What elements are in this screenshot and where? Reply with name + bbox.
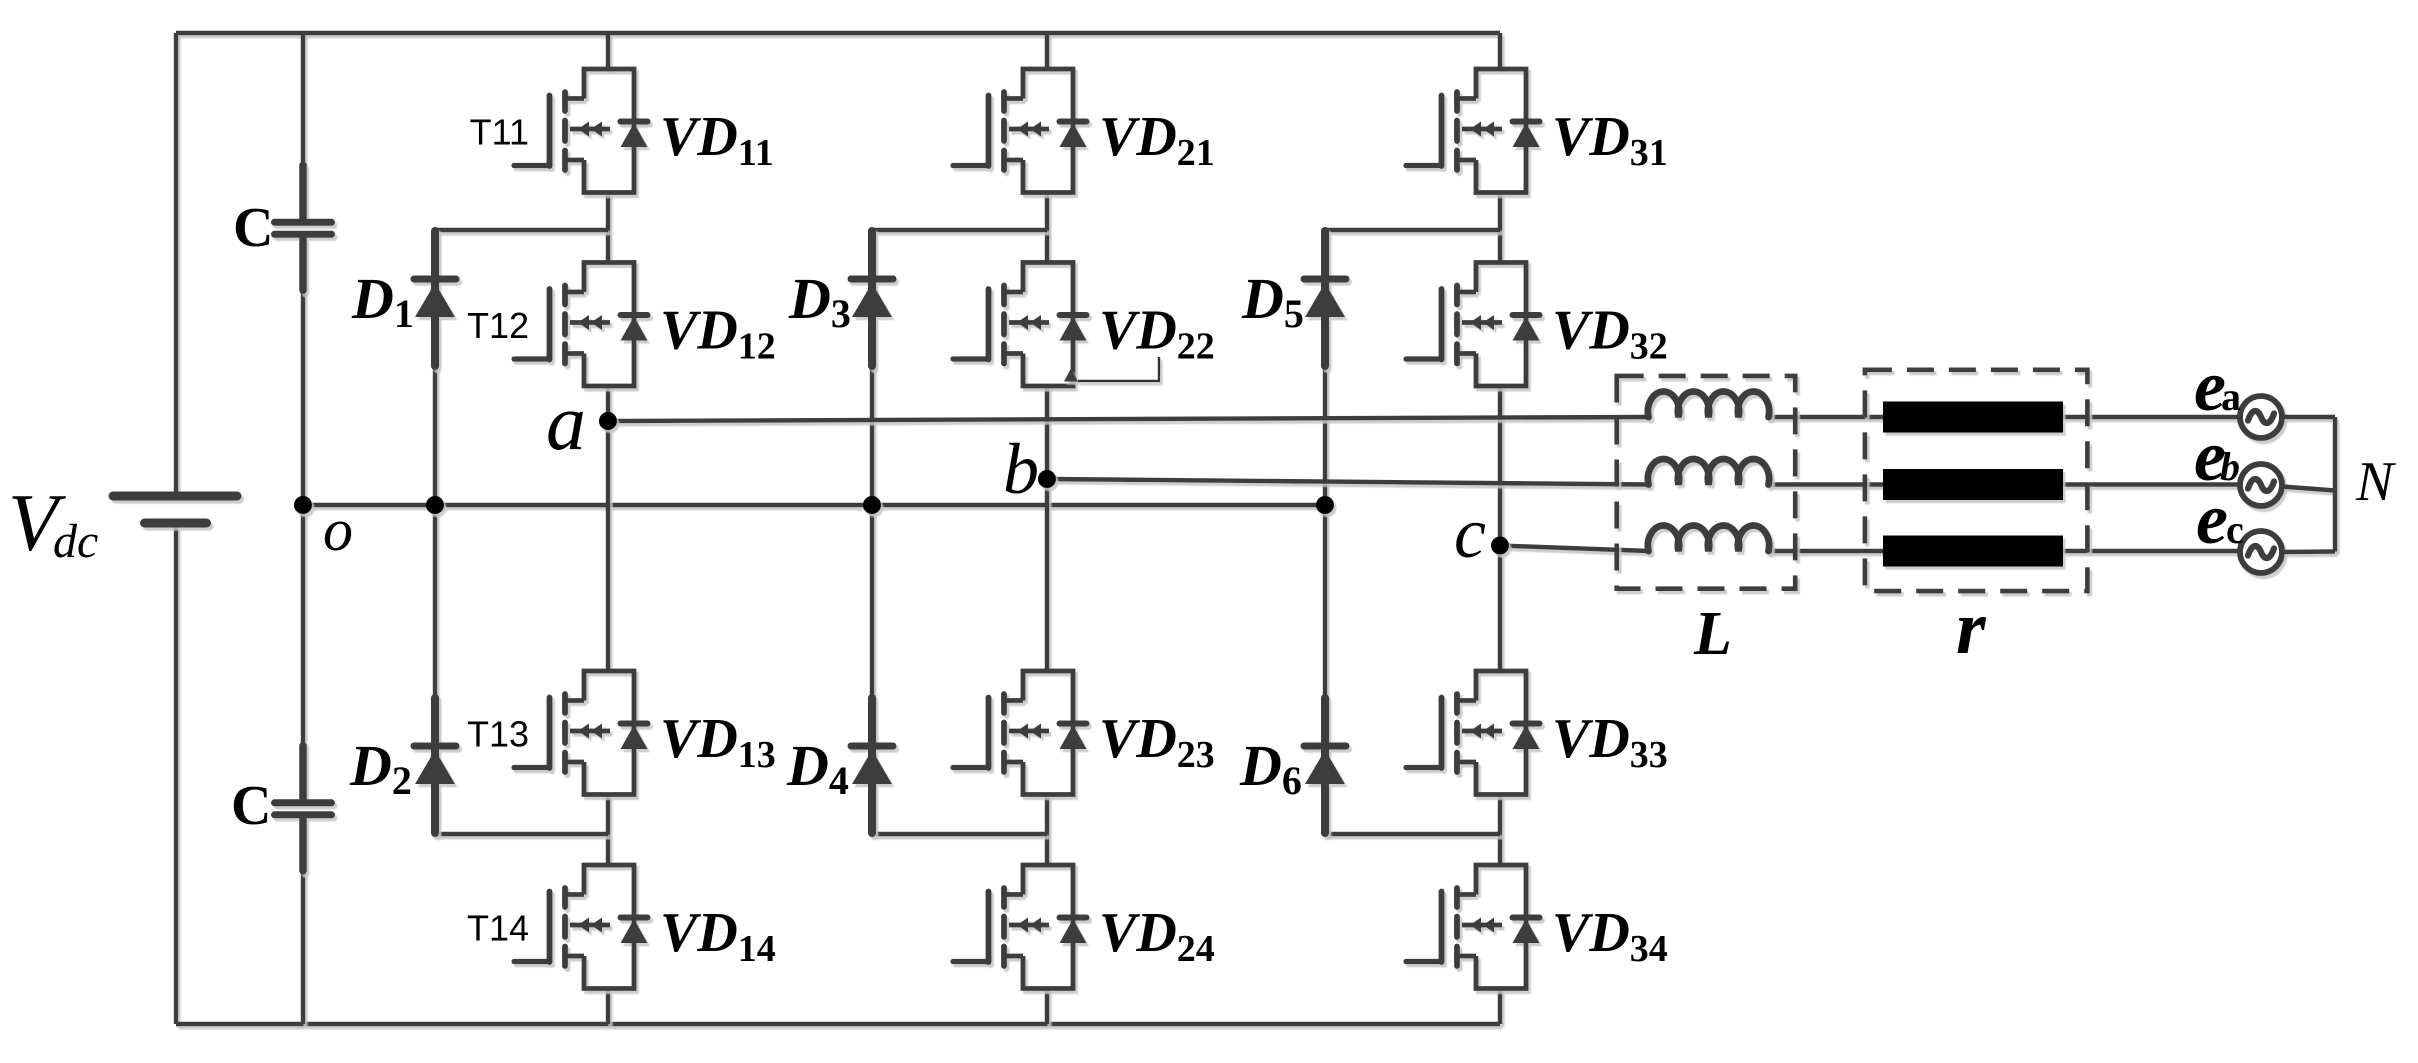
wire clamp upper junction c: [1325, 228, 1500, 232]
transistor T32: [1406, 263, 1540, 387]
wire N vertical: [2333, 417, 2337, 552]
ac source ea: [2240, 396, 2282, 438]
svg-text:r: r: [1956, 586, 1987, 670]
label r: [1956, 586, 1987, 670]
label VD22: [1099, 300, 1215, 368]
wire phase-c leg vertical: [1498, 33, 1502, 1024]
transistor T12: [514, 263, 648, 387]
svg-text:o: o: [323, 497, 353, 563]
label VD13: [660, 708, 776, 776]
transistor T13: [514, 671, 648, 795]
label VD33: [1552, 708, 1668, 776]
label Vdc: [8, 477, 98, 568]
svg-text:b: b: [1003, 429, 1039, 509]
wire clamp lower junction a: [435, 832, 608, 836]
label T13: [467, 714, 529, 755]
label D4: [786, 733, 849, 803]
node o junction dot: [294, 496, 312, 514]
label VD32: [1552, 300, 1668, 368]
wire left DC bus vertical (top half): [174, 33, 178, 492]
battery Vdc: [113, 496, 237, 523]
transistor T24: [953, 865, 1087, 989]
wire source a to N: [2282, 415, 2335, 419]
wire clamp branch vertical c: [1323, 230, 1327, 834]
resistor rb: [1883, 469, 2063, 500]
wire left DC bus vertical (bottom half): [174, 528, 178, 1025]
label o: [323, 497, 353, 563]
inductor Lb: [1648, 459, 1769, 484]
transistor T11: [514, 69, 648, 193]
label T11: [470, 112, 529, 153]
diode D3: [851, 231, 893, 366]
transistor T33: [1406, 671, 1540, 795]
wire neutral o bus: [303, 503, 1325, 507]
label VD11: [660, 106, 774, 174]
wire capacitor branch vertical: [301, 33, 305, 1024]
wire clamp branch vertical a: [433, 230, 437, 834]
diode D2: [414, 698, 456, 833]
svg-text:N: N: [2355, 451, 2396, 513]
label T12: [467, 305, 529, 346]
label c: [1454, 493, 1486, 573]
node b dot: [1038, 470, 1056, 488]
node dot clamp midpoint a: [426, 496, 444, 514]
svg-text:T14: T14: [467, 908, 529, 949]
label D1: [351, 266, 414, 336]
label C (upper): [233, 197, 273, 259]
resistor box dashed: [1865, 370, 2087, 591]
wire source b to N: [2282, 487, 2335, 491]
wire clamp upper junction a: [435, 228, 608, 232]
diode D6: [1304, 698, 1346, 833]
wire clamp branch vertical b: [870, 230, 874, 834]
transistor T14: [514, 865, 648, 989]
svg-text:a: a: [2221, 374, 2241, 419]
ac source eb: [2240, 464, 2282, 506]
transistor T21: [953, 69, 1087, 193]
label N: [2355, 451, 2396, 513]
ac source ec: [2240, 531, 2282, 573]
label VD12: [660, 300, 776, 368]
label D3: [788, 266, 851, 336]
transistor T22: [953, 263, 1087, 387]
svg-text:C: C: [233, 197, 273, 259]
label VD34: [1552, 902, 1668, 970]
svg-text:C: C: [231, 775, 271, 837]
label ea: [2194, 346, 2241, 426]
wire clamp upper junction b: [872, 228, 1047, 232]
inductor Lc: [1648, 526, 1769, 551]
diode D1: [414, 231, 456, 366]
label VD21: [1099, 106, 1215, 174]
wire phase b output: [1047, 479, 2240, 485]
capacitor C (upper): [275, 165, 332, 290]
label VD23: [1099, 708, 1215, 776]
wire phase-b leg vertical: [1045, 33, 1049, 1024]
node a dot: [599, 412, 617, 430]
wire source c to N: [2282, 549, 2335, 554]
label L: [1693, 600, 1732, 668]
svg-text:T13: T13: [467, 714, 529, 755]
label T14: [467, 908, 529, 949]
inductor box dashed: [1617, 376, 1796, 589]
svg-text:c: c: [2226, 507, 2244, 552]
svg-text:T11: T11: [470, 112, 529, 153]
svg-text:L: L: [1693, 600, 1732, 668]
transistor T23: [953, 671, 1087, 795]
wire top DC bus: [176, 31, 1500, 35]
transistor T34: [1406, 865, 1540, 989]
svg-text:T12: T12: [467, 305, 529, 346]
label VD31: [1552, 106, 1668, 174]
label D2: [349, 733, 412, 803]
svg-text:e: e: [2196, 479, 2228, 559]
diode D5: [1304, 231, 1346, 366]
label D6: [1239, 733, 1302, 803]
label eb: [2194, 416, 2240, 496]
svg-text:c: c: [1454, 493, 1486, 573]
annotation leader line VD22: [1064, 357, 1159, 382]
wire phase c output: [1500, 546, 2240, 552]
svg-text:dc: dc: [53, 515, 98, 568]
node c dot: [1491, 537, 1509, 555]
capacitor C (lower): [275, 746, 332, 871]
wire bottom DC bus: [176, 1022, 1500, 1026]
transistor T31: [1406, 69, 1540, 193]
diode D4: [851, 698, 893, 833]
label D5: [1241, 266, 1304, 336]
wire clamp lower junction b: [872, 832, 1047, 836]
label VD24: [1099, 902, 1215, 970]
label a: [546, 379, 586, 467]
label ec: [2196, 479, 2244, 559]
node dot clamp midpoint b: [863, 496, 881, 514]
resistor rc: [1883, 536, 2063, 567]
inductor La: [1648, 392, 1769, 417]
wire phase a output: [608, 417, 2240, 421]
label b: [1003, 429, 1039, 509]
wire clamp lower junction c: [1325, 832, 1500, 836]
label C (lower): [231, 775, 271, 837]
label VD14: [660, 902, 776, 970]
svg-text:a: a: [546, 379, 586, 467]
node dot clamp midpoint c: [1316, 496, 1334, 514]
wire phase-a leg vertical: [606, 33, 610, 1024]
resistor ra: [1883, 402, 2063, 433]
